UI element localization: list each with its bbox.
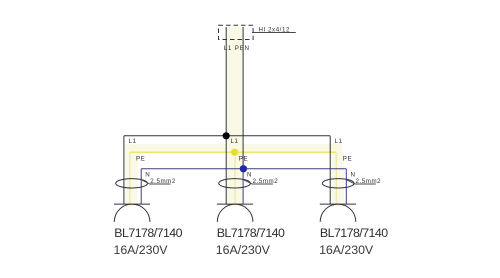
svg-text:L1: L1 (335, 138, 343, 145)
svg-text:HI 2x4/12: HI 2x4/12 (259, 26, 290, 33)
svg-text:BL7178/7140: BL7178/7140 (114, 226, 182, 240)
svg-text:BL7178/7140: BL7178/7140 (217, 226, 285, 240)
svg-text:PE: PE (343, 155, 352, 162)
svg-text:PE: PE (136, 155, 145, 162)
svg-text:2.5mm2: 2.5mm2 (150, 178, 176, 185)
svg-text:16A/230V: 16A/230V (319, 243, 374, 257)
svg-text:16A/230V: 16A/230V (114, 243, 169, 257)
svg-text:L1 PEN: L1 PEN (224, 45, 250, 52)
svg-text:N: N (247, 172, 252, 179)
svg-text:PE: PE (239, 155, 248, 162)
svg-text:2.5mm2: 2.5mm2 (356, 178, 382, 185)
svg-text:16A/230V: 16A/230V (216, 243, 271, 257)
svg-text:2.5mm2: 2.5mm2 (253, 178, 279, 185)
svg-text:BL7178/7140: BL7178/7140 (320, 226, 388, 240)
svg-text:L1: L1 (231, 138, 239, 145)
svg-text:L1: L1 (129, 138, 137, 145)
